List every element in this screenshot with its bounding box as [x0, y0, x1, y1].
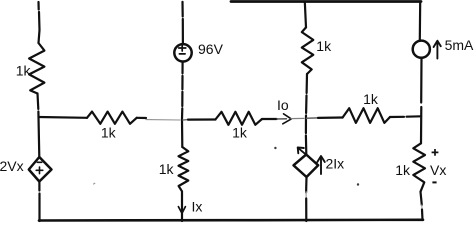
svg-text:1k: 1k	[101, 124, 117, 140]
svg-text:Ix: Ix	[192, 199, 203, 215]
svg-text:1k: 1k	[16, 63, 32, 79]
svg-text:1k: 1k	[159, 161, 175, 177]
svg-text:96V: 96V	[198, 41, 224, 57]
svg-text:1k: 1k	[363, 91, 379, 107]
svg-text:Vx: Vx	[430, 162, 446, 178]
svg-text:2Vx: 2Vx	[0, 158, 24, 174]
svg-text:5mA: 5mA	[445, 37, 474, 53]
svg-text:1k: 1k	[316, 38, 332, 54]
svg-text:1k: 1k	[232, 124, 248, 140]
svg-text:2Ix: 2Ix	[326, 156, 345, 172]
svg-text:Io: Io	[277, 97, 289, 113]
svg-text:1k: 1k	[395, 162, 411, 178]
